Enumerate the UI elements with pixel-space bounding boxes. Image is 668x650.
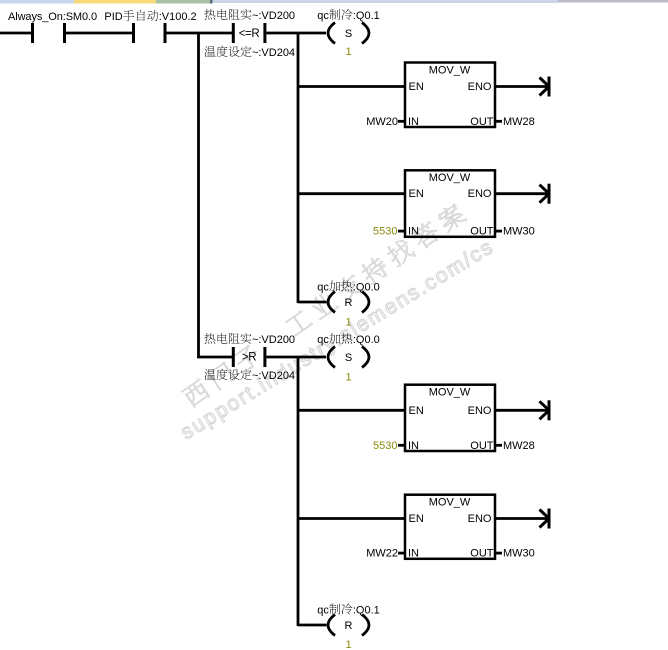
wire corner branchB1 to R coil [298, 301, 327, 304]
svg-text:~:VD204: ~:VD204 [252, 47, 295, 59]
svg-text:ENO: ENO [468, 81, 492, 93]
branch vertical B2 (MOV taps rung2) [297, 356, 300, 626]
svg-text:support.industry.siemens.com/c: support.industry.siemens.com/cs [177, 235, 499, 444]
svg-text:MOV_W: MOV_W [429, 497, 471, 509]
svg-text:MW28: MW28 [503, 440, 535, 452]
operand MW20 -> IN (MOV1) [366, 116, 405, 128]
operand 5530 -> IN (MOV3) [373, 440, 405, 452]
svg-text:ENO: ENO [468, 513, 492, 525]
wire MOV2 ENO out + arrow [496, 184, 549, 204]
svg-text:5530: 5530 [373, 226, 397, 238]
label qc制冷:Q0.1 [317, 9, 380, 22]
coil R qc制冷:Q0.1 [328, 615, 369, 636]
svg-text:R: R [345, 297, 353, 309]
operand OUT -> MW30 (MOV4) [495, 548, 535, 560]
coil S qc加热:Q0.0 [328, 347, 369, 368]
svg-text:<=R: <=R [239, 28, 260, 40]
branch vertical A (to rung2) [197, 32, 200, 358]
svg-text:IN: IN [408, 226, 419, 238]
block MOV_W U4 [405, 495, 495, 560]
contact Always_On:SM0.0 [33, 23, 65, 43]
label &lt;=R [239, 28, 260, 40]
watermark url line [177, 235, 499, 444]
label qc加热:Q0.0 (R coil) [317, 280, 380, 293]
svg-text:MOV_W: MOV_W [429, 64, 471, 76]
svg-text:1: 1 [345, 317, 351, 329]
wire MOV1 ENO out + arrow [496, 77, 549, 97]
wire rung2 from branchA to compare [197, 356, 232, 359]
svg-text::Q0.0: :Q0.0 [353, 282, 380, 294]
svg-text:5530: 5530 [373, 440, 397, 452]
value 1 under S coil [345, 46, 351, 58]
svg-text::Q0.1: :Q0.1 [353, 605, 380, 617]
svg-text:EN: EN [409, 405, 424, 417]
block MOV_W U1 [405, 63, 495, 128]
svg-text:ENO: ENO [468, 188, 492, 200]
coil S qc制冷:Q0.1 [328, 23, 369, 44]
svg-text:IN: IN [408, 440, 419, 452]
watermark chinese line 西门子工业支持找答案 [180, 201, 467, 409]
svg-text:OUT: OUT [470, 116, 494, 128]
label Always_On:SM0.0 [8, 11, 97, 23]
svg-text:IN: IN [408, 116, 419, 128]
wire compare to S coil [266, 32, 326, 35]
svg-text:R: R [345, 620, 353, 632]
svg-text:OUT: OUT [470, 440, 494, 452]
wire compare2 to S coil [266, 356, 326, 359]
svg-text:~:VD200: ~:VD200 [252, 10, 295, 22]
coil R qc加热:Q0.0 [328, 292, 369, 313]
label 热电阻实~:VD200 (top) [204, 9, 295, 22]
svg-text:1: 1 [345, 639, 351, 650]
svg-text::Q0.0: :Q0.0 [353, 334, 380, 346]
svg-text:~:VD204: ~:VD204 [252, 370, 295, 382]
svg-text:MW28: MW28 [503, 116, 535, 128]
svg-text:qc: qc [317, 334, 329, 346]
value 1 under S coil rung2 [345, 372, 351, 384]
svg-text:qc: qc [317, 10, 329, 22]
contact PID手自动:V100.2 [134, 23, 166, 43]
svg-text:IN: IN [408, 548, 419, 560]
svg-text::Q0.1: :Q0.1 [353, 10, 380, 22]
svg-text:PID: PID [104, 11, 122, 23]
window chrome strip [0, 0, 668, 4]
svg-text::V100.2: :V100.2 [159, 11, 197, 23]
svg-text:EN: EN [409, 81, 424, 93]
operand OUT -> MW28 (MOV3) [495, 440, 535, 452]
label PID手自动:V100.2 [104, 10, 196, 23]
label qc制冷:Q0.1 (bottom R coil) [317, 604, 380, 617]
svg-text:>R: >R [242, 352, 256, 364]
wire MOV3 ENO out + arrow [496, 400, 549, 420]
svg-text:~:VD200: ~:VD200 [252, 334, 295, 346]
svg-text:MOV_W: MOV_W [429, 387, 471, 399]
svg-text:EN: EN [409, 513, 424, 525]
wire corner branchB2 to R coil2 [298, 624, 327, 627]
operand 5530 -> IN (MOV2) [373, 226, 405, 238]
value 1 under bottom R coil [345, 639, 351, 650]
branch vertical B1 (MOV taps rung1) [297, 32, 300, 303]
svg-text:MW30: MW30 [503, 226, 535, 238]
svg-text:1: 1 [345, 46, 351, 58]
compare contact <=R VD200/VD204 [233, 23, 265, 43]
wire branch to MOV2 EN [298, 192, 405, 195]
svg-text:S: S [345, 28, 352, 40]
compare contact >R VD200/VD204 [233, 347, 265, 367]
label 温度设定~:VD204 (rung2 bottom) [204, 369, 295, 382]
svg-text:MW30: MW30 [503, 548, 535, 560]
svg-text:1: 1 [345, 372, 351, 384]
svg-text:MW22: MW22 [366, 548, 398, 560]
svg-text:Always_On:SM0.0: Always_On:SM0.0 [8, 11, 97, 23]
operand OUT -> MW30 (MOV2) [495, 226, 535, 238]
operand OUT -> MW28 (MOV1) [495, 116, 535, 128]
label qc加热:Q0.0 (S coil rung2) [317, 333, 380, 346]
wire branch to MOV1 EN [298, 85, 405, 88]
wire rung1 left rail to contact SM0.0 [0, 32, 32, 35]
wire branch to MOV4 EN [298, 517, 405, 520]
operand MW22 -> IN (MOV4) [366, 548, 405, 560]
svg-text:MOV_W: MOV_W [429, 172, 471, 184]
block MOV_W U3 [405, 385, 495, 452]
value 1 under R coil [345, 317, 351, 329]
svg-text:qc: qc [317, 605, 329, 617]
label 热电阻实~:VD200 (rung2 top) [204, 333, 295, 346]
label &gt;R [242, 352, 256, 364]
block MOV_W U2 [405, 170, 495, 237]
svg-text:EN: EN [409, 188, 424, 200]
svg-text:S: S [345, 352, 352, 364]
wire branch to MOV3 EN [298, 409, 405, 412]
label 温度设定~:VD204 (bottom) [204, 46, 295, 59]
svg-text:MW20: MW20 [366, 116, 398, 128]
svg-text:qc: qc [317, 282, 329, 294]
wire contact2 to compare contact [166, 32, 232, 35]
svg-text:OUT: OUT [470, 226, 494, 238]
svg-text:OUT: OUT [470, 548, 494, 560]
wire contact1 to contact2 [65, 32, 133, 35]
svg-text:ENO: ENO [468, 405, 492, 417]
wire MOV4 ENO out + arrow [496, 509, 549, 529]
